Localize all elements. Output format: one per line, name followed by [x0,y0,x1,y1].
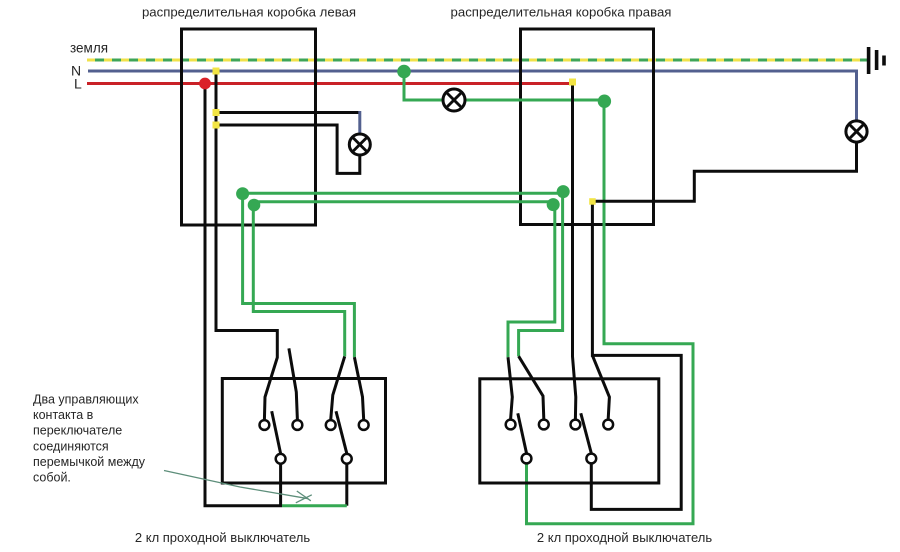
right switch contact 1 [506,420,516,430]
node E: green junction right box lower [547,198,560,211]
svg-text:распределительная коробка прав: распределительная коробка правая [451,5,672,20]
switch box right [480,379,659,483]
left switch common 1 [276,454,286,464]
left switch contact 3 [326,420,336,430]
wire: L end drop to right switch contact 3 [573,84,576,419]
node: red tap on L line [199,78,211,90]
right switch contact 4 [603,420,613,430]
left switch contact 1 [260,420,270,430]
wire: green jumper between left switch commons [282,504,347,507]
wire: branch to right switch contact 4 [592,355,609,419]
node B: green junction left box lower [248,199,261,212]
node: yellow tap on N [213,68,220,75]
wire: green N tap to lamp2 [404,72,604,101]
svg-text:2 кл проходной выключатель: 2 кл проходной выключатель [135,530,310,545]
lamp HL3 [846,121,867,142]
right switch contact 2 [539,420,549,430]
node: green tap on N line [397,65,411,79]
right switch contact 3 [571,420,581,430]
wire: N bus (slate blue, goes right and down to lamp3) [88,71,857,121]
wire: earth bus (green with yellow dashes) [87,59,868,62]
wire: green down from node E to right switch contact 1 [508,202,555,419]
svg-text:распределительная коробка лева: распределительная коробка левая [142,5,356,20]
svg-text:2 кл проходной выключатель: 2 кл проходной выключатель [537,530,712,545]
wire: L feed down to left switch common 1 [205,84,281,506]
svg-text:L: L [74,76,82,92]
wire: green from node C down around to right switch common 1 [527,101,694,524]
wire: lamp3 return to yellow node [592,142,856,201]
svg-text:земля: земля [70,41,108,56]
switch box left [222,379,385,484]
node D: green junction right box upper [557,185,570,198]
node: yellow tap lamp1 bottom [213,122,220,129]
wire: green traveler upper (left box to right box) [243,192,564,195]
right switch common 2 [586,454,596,464]
svg-text:Два управляющих контакта в пер: Два управляющих контакта в переключателе… [33,393,149,485]
wire: free contact stub left switch contact 2 [289,348,298,420]
right switch lever 1 [518,413,527,453]
node: yellow tap at L end [569,79,576,86]
wire: N tap down to left switch contact 1 [216,71,277,420]
wire: green down from node B to left switch contact 3 [253,205,344,420]
wire: L bus (red) [87,82,573,85]
wire: lamp1 bottom loop [216,125,360,173]
wire: left switch common 2 drop [345,464,348,506]
wire: yellow node down and around to right switch common 2 [591,201,681,509]
wire: lamp1 top feed [216,111,360,114]
left switch common 2 [342,454,352,464]
right switch common 1 [522,454,532,464]
node A: green junction left box upper [236,187,249,200]
left switch contact 2 [293,420,303,430]
node C: green junction right of lamp2 [598,95,611,108]
wire: lamp1 top drop (slate) [358,111,361,134]
node: yellow tap lamp1 top [213,109,220,116]
lamp HL1 [349,134,370,155]
lamp HL2 [443,89,465,111]
junction box left [182,29,316,225]
left switch lever 2 [336,411,347,453]
wire: green traveler lower (left box to right box) [251,200,555,203]
right switch lever 2 [581,413,592,453]
wire: green down from node A to left switch contact 4 [243,193,364,420]
node: yellow junction in right box [589,198,596,205]
left switch contact 4 [359,420,369,430]
wire: green down from node D to right switch contact 2 [519,193,563,419]
ground symbol [867,47,886,74]
arrow: annotation pointer to jumper [164,471,312,503]
junction box right [521,29,654,225]
left switch lever 1 [272,411,281,453]
